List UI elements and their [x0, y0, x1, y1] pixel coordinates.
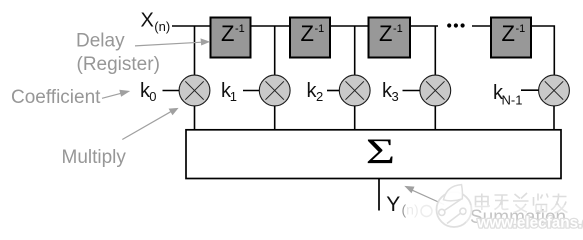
wire: k3 to M4: [403, 90, 420, 92]
svg-text:Z: Z: [301, 21, 314, 46]
svg-text:0: 0: [149, 89, 156, 104]
watermark: white wash over Summation label: [466, 205, 583, 229]
summation block Sigma: [186, 130, 561, 179]
wire: M3 to summation: [354, 106, 356, 130]
svg-text:Z: Z: [379, 21, 392, 46]
svg-text:-1: -1: [393, 23, 403, 35]
multiplier M5 (last): [539, 75, 570, 106]
delay block Z4 (last): [491, 18, 531, 58]
watermark: elecfans logo circle: [437, 185, 472, 227]
svg-text:Σ: Σ: [366, 132, 395, 171]
delay block Z3: [369, 18, 411, 58]
svg-text:(n): (n): [154, 19, 170, 34]
svg-text:Delay: Delay: [76, 31, 125, 52]
wire: ellipsis to Z4: [472, 25, 492, 27]
wire: M2 to summation: [274, 106, 276, 130]
svg-text:-1: -1: [235, 23, 245, 35]
wire: M4 to summation: [434, 106, 436, 130]
wire tap 1 down to multiplier M1: [194, 26, 196, 76]
watermark: logo leaf: [444, 185, 463, 201]
wire: M1 to summation: [194, 106, 196, 130]
coefficient label k1: [221, 80, 237, 104]
node Y(n) output label: [386, 193, 418, 218]
svg-text:Multiply: Multiply: [62, 147, 127, 168]
delay block Z1: [211, 18, 251, 58]
svg-text:Y: Y: [386, 193, 400, 216]
wire: k0 to M1: [163, 90, 180, 92]
svg-text:-1: -1: [516, 23, 526, 35]
callout arrow: Summation to output wire: [404, 186, 444, 205]
svg-text:N-1: N-1: [502, 92, 523, 107]
wire: M5 to summation: [553, 106, 555, 130]
svg-text:3: 3: [392, 89, 399, 104]
wire: Z1 to Z2: [250, 25, 291, 27]
wire: k2 to M3: [327, 90, 339, 92]
coefficient label k3: [382, 80, 399, 104]
svg-text:2: 2: [316, 89, 323, 104]
svg-text:-1: -1: [315, 23, 325, 35]
coefficient label k0: [140, 80, 157, 104]
svg-text:(Register): (Register): [77, 54, 160, 75]
wire: summation output Y: [378, 179, 380, 211]
callout arrow: Coefficient to k0: [102, 90, 130, 99]
watermark: logo link line: [444, 199, 462, 211]
node X(n) input label: [141, 9, 171, 34]
svg-text:Z: Z: [221, 21, 234, 46]
callout arrow: Delay to Z1: [135, 38, 210, 46]
wire: Z2 to Z3: [330, 25, 369, 27]
wire tap 3 down to multiplier M3: [354, 26, 356, 76]
wire: Z3 to ellipsis: [409, 25, 438, 27]
watermark: white wash over Y(n) subscript: [404, 202, 422, 218]
svg-text:www.elecfans.com: www.elecfans.com: [477, 215, 583, 232]
watermark: faint circle left of logo: [421, 206, 432, 217]
multiplier M2: [259, 75, 290, 106]
svg-text:Coefficient: Coefficient: [11, 87, 101, 108]
multiplier M4: [420, 75, 451, 106]
svg-text:Z: Z: [502, 21, 515, 46]
watermark: Chinese characters dian-zi-fa-shao-you (drawn strokes): [476, 193, 568, 213]
wire: k1 to M2: [243, 90, 259, 92]
delay block Z2: [290, 18, 330, 58]
callout arrow: Multiply to M1: [122, 108, 178, 140]
multiplier M3: [339, 75, 370, 106]
svg-text:X: X: [141, 9, 154, 31]
wire tap 2 down to multiplier M2: [274, 26, 276, 76]
wire tap 4 down to multiplier M4: [434, 26, 436, 76]
watermark: logo small circle 2: [460, 208, 466, 214]
coefficient label kN-1: [493, 82, 522, 107]
ellipsis between Z3 and Z4: [447, 23, 465, 27]
wire: Z4 output to last tap (corner): [531, 26, 555, 75]
svg-text:1: 1: [230, 89, 237, 104]
coefficient label k2: [307, 80, 324, 104]
callout text: Delay (Register): [76, 31, 160, 75]
multiplier M1: [179, 75, 210, 106]
wire: kN-1 to M5: [521, 89, 539, 91]
watermark: logo small circle 1: [439, 209, 445, 215]
watermark: logo link line lower: [447, 213, 462, 224]
wire: X(n) to Z1: [172, 25, 211, 27]
